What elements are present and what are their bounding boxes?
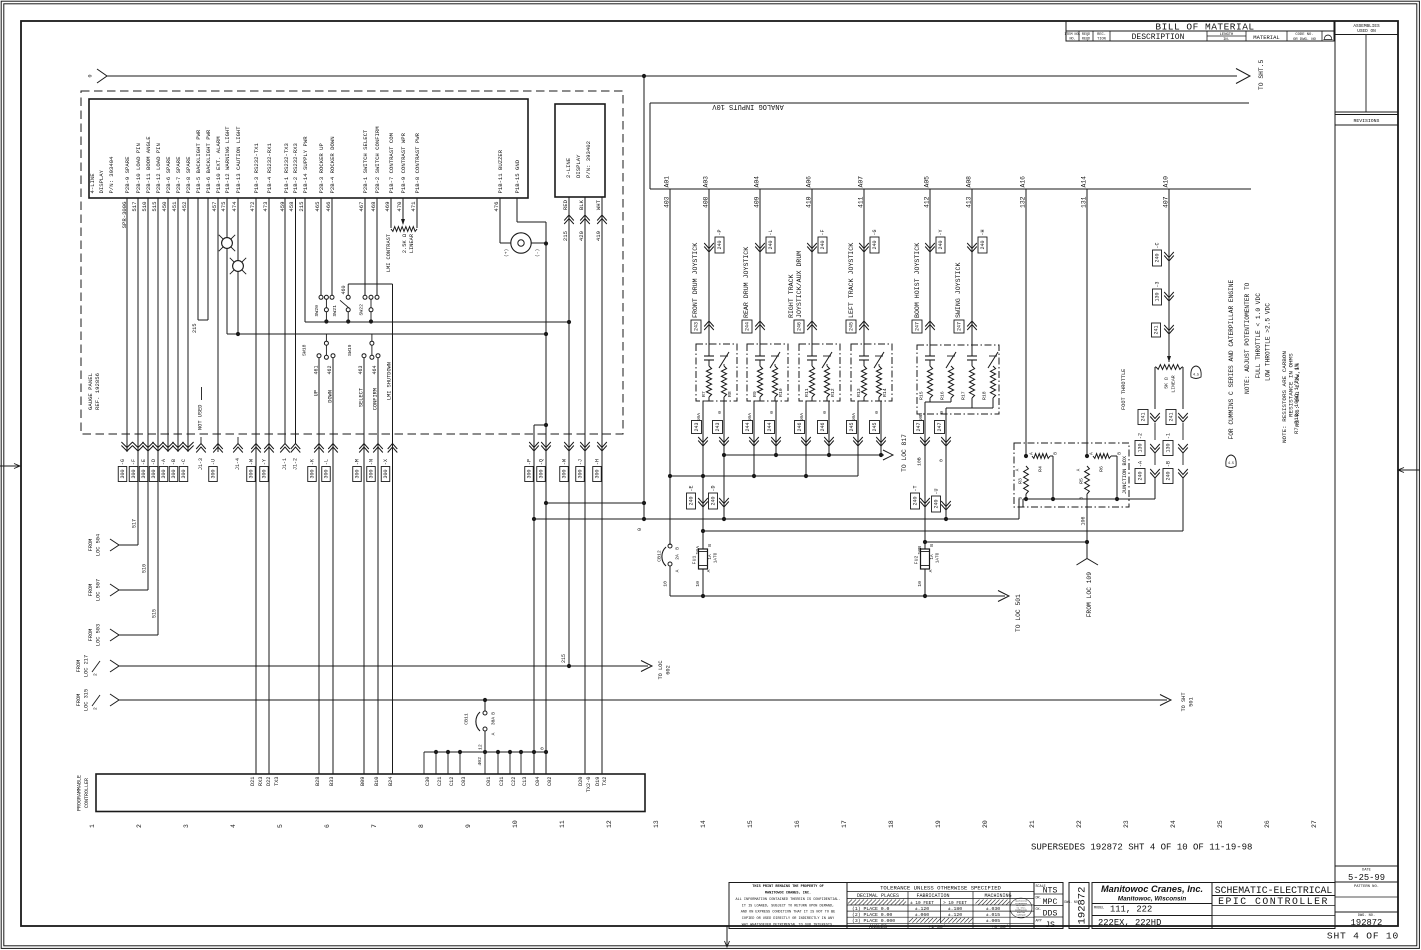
svg-text:300: 300 bbox=[151, 469, 157, 478]
svg-text:-G: -G bbox=[872, 229, 878, 235]
svg-text:+0°30': +0°30' bbox=[991, 924, 1008, 930]
svg-text:10A: 10A bbox=[695, 546, 701, 555]
svg-text:0: 0 bbox=[822, 411, 828, 414]
svg-text:SELECT: SELECT bbox=[358, 388, 364, 407]
svg-text:244: 244 bbox=[767, 422, 773, 431]
svg-text:BOOM HOIST JOYSTICK: BOOM HOIST JOYSTICK bbox=[914, 243, 921, 318]
svg-text:244: 244 bbox=[745, 422, 751, 431]
svg-text:THIS PRINT REMAINS THE PROPERT: THIS PRINT REMAINS THE PROPERTY OF bbox=[752, 885, 823, 889]
svg-text:J1-4: J1-4 bbox=[235, 458, 241, 470]
svg-text:D21: D21 bbox=[250, 777, 256, 787]
svg-text:240: 240 bbox=[1166, 471, 1172, 480]
svg-text:LOC 504: LOC 504 bbox=[95, 534, 101, 556]
svg-text:240: 240 bbox=[913, 496, 919, 505]
svg-text:476: 476 bbox=[493, 202, 500, 212]
svg-text:DOWN: DOWN bbox=[327, 390, 333, 403]
svg-text:240: 240 bbox=[689, 496, 695, 505]
svg-text:A03: A03 bbox=[703, 176, 710, 188]
svg-text:SWING JOYSTICK: SWING JOYSTICK bbox=[955, 263, 962, 318]
svg-text:-F: -F bbox=[820, 229, 826, 235]
svg-text:USED ON: USED ON bbox=[1357, 29, 1376, 34]
svg-text:18: 18 bbox=[888, 820, 895, 828]
svg-text:475: 475 bbox=[220, 202, 227, 212]
svg-text:300: 300 bbox=[211, 469, 217, 478]
svg-text:247: 247 bbox=[957, 322, 963, 331]
svg-text:C13: C13 bbox=[522, 777, 528, 787]
svg-text:R13: R13 bbox=[856, 388, 862, 397]
svg-text:P2B-3 ROCKER UP: P2B-3 ROCKER UP bbox=[318, 143, 325, 194]
svg-text:FROM: FROM bbox=[76, 694, 82, 707]
svg-text:P2B-12 LOAD PIN: P2B-12 LOAD PIN bbox=[155, 143, 162, 193]
svg-text:13: 13 bbox=[653, 820, 660, 828]
svg-text:-Q: -Q bbox=[539, 459, 545, 465]
svg-text:LINEAR: LINEAR bbox=[1171, 375, 1177, 392]
svg-text:CB12: CB12 bbox=[657, 550, 663, 562]
svg-text:300: 300 bbox=[161, 469, 167, 478]
svg-text:A08: A08 bbox=[966, 176, 973, 188]
svg-text:300: 300 bbox=[355, 469, 361, 478]
svg-text:0: 0 bbox=[939, 459, 945, 462]
svg-text:PATTERN NO.: PATTERN NO. bbox=[1354, 885, 1379, 889]
svg-text:A: A bbox=[675, 569, 681, 572]
svg-text:A: A bbox=[706, 569, 712, 572]
svg-text:466: 466 bbox=[325, 202, 332, 212]
svg-text:245: 245 bbox=[849, 422, 855, 431]
svg-text:23: 23 bbox=[1123, 820, 1130, 828]
svg-text:-A: -A bbox=[161, 459, 167, 465]
svg-text:P1B-14 SUPPLY PWR: P1B-14 SUPPLY PWR bbox=[302, 136, 309, 194]
svg-text:LENGTH: LENGTH bbox=[1220, 33, 1234, 37]
svg-text:-F: -F bbox=[131, 459, 137, 465]
svg-text:FROM: FROM bbox=[88, 539, 94, 552]
svg-text:130: 130 bbox=[1166, 443, 1172, 452]
svg-text:R15: R15 bbox=[919, 391, 925, 400]
svg-text:P1B-9 CONTRAST WPR: P1B-9 CONTRAST WPR bbox=[400, 132, 407, 193]
svg-text:B28: B28 bbox=[315, 777, 321, 787]
svg-text:420: 420 bbox=[578, 230, 585, 241]
svg-text:463: 463 bbox=[358, 366, 364, 375]
svg-text:C22: C22 bbox=[511, 777, 517, 787]
svg-text:REC-: REC- bbox=[1097, 33, 1106, 37]
svg-text:C04: C04 bbox=[535, 777, 541, 787]
svg-text:B10: B10 bbox=[374, 777, 380, 787]
svg-text:P2B-2 SWITCH CONFIRM: P2B-2 SWITCH CONFIRM bbox=[374, 126, 381, 193]
svg-text:26: 26 bbox=[1264, 820, 1271, 828]
svg-text:-X: -X bbox=[383, 459, 389, 465]
svg-text:TO LOC 817: TO LOC 817 bbox=[901, 434, 908, 472]
svg-text:A10: A10 bbox=[1163, 176, 1170, 188]
svg-text:P1B-11 BUZZER: P1B-11 BUZZER bbox=[497, 149, 504, 193]
svg-text:IN.: IN. bbox=[1223, 38, 1230, 42]
svg-text:0: 0 bbox=[540, 747, 546, 750]
svg-text:BILL OF MATERIAL: BILL OF MATERIAL bbox=[1155, 22, 1254, 33]
svg-text:467: 467 bbox=[358, 202, 365, 212]
svg-text:-M: -M bbox=[355, 459, 361, 465]
svg-text:464: 464 bbox=[372, 366, 378, 375]
svg-text:P1B-3 RS232-TX1: P1B-3 RS232-TX1 bbox=[253, 143, 260, 194]
svg-text:10: 10 bbox=[695, 581, 701, 587]
svg-text:300: 300 bbox=[562, 469, 568, 478]
svg-text:240: 240 bbox=[1138, 471, 1144, 480]
svg-text:R18: R18 bbox=[982, 391, 988, 400]
svg-text:A16: A16 bbox=[1020, 176, 1027, 188]
svg-text:DESCRIPTION: DESCRIPTION bbox=[1132, 33, 1185, 42]
svg-text:LINEAR: LINEAR bbox=[409, 233, 415, 253]
svg-text:RED: RED bbox=[562, 199, 569, 210]
svg-text:4.5: 4.5 bbox=[1193, 374, 1199, 378]
svg-text:TO LOC 501: TO LOC 501 bbox=[1015, 594, 1022, 632]
svg-text:472: 472 bbox=[249, 202, 256, 212]
svg-text:OR DWG. NO: OR DWG. NO bbox=[1293, 38, 1317, 42]
svg-text:SW18: SW18 bbox=[302, 344, 308, 356]
svg-text:241: 241 bbox=[1141, 412, 1147, 421]
svg-text:JOYSTICK/AUX DRUM: JOYSTICK/AUX DRUM bbox=[796, 251, 803, 318]
svg-text:471: 471 bbox=[410, 201, 417, 212]
svg-text:R7: R7 bbox=[701, 391, 707, 397]
svg-text:10B: 10B bbox=[917, 546, 923, 555]
svg-text:243: 243 bbox=[694, 322, 700, 331]
svg-text:20: 20 bbox=[982, 820, 989, 828]
svg-text:SCHEMATIC-ELECTRICAL: SCHEMATIC-ELECTRICAL bbox=[1215, 885, 1333, 896]
svg-text:P2B-10 LOAD PIN: P2B-10 LOAD PIN bbox=[135, 143, 142, 193]
svg-text:300: 300 bbox=[120, 469, 126, 478]
svg-text:17: 17 bbox=[841, 820, 848, 828]
svg-text:246: 246 bbox=[797, 422, 803, 431]
svg-text:0: 0 bbox=[637, 528, 643, 531]
svg-text:ANGLES: ANGLES bbox=[869, 924, 887, 930]
svg-text:12: 12 bbox=[478, 744, 484, 750]
svg-text:-E: -E bbox=[141, 459, 147, 465]
svg-text:FOOT THROTTLE: FOOT THROTTLE bbox=[1121, 369, 1127, 410]
svg-text:FULL THROTTLE < 1.0 VDC: FULL THROTTLE < 1.0 VDC bbox=[1255, 293, 1262, 379]
svg-text:SW22: SW22 bbox=[359, 304, 365, 316]
svg-text:1: 1 bbox=[89, 824, 96, 828]
svg-text:7: 7 bbox=[371, 824, 378, 828]
svg-text:-Y: -Y bbox=[262, 459, 268, 465]
svg-text:SHT 4 OF 10: SHT 4 OF 10 bbox=[1327, 931, 1399, 942]
svg-text:1ATO: 1ATO bbox=[713, 552, 718, 563]
svg-text:REVISIONS: REVISIONS bbox=[1354, 118, 1380, 124]
svg-text:240: 240 bbox=[820, 240, 826, 249]
svg-text:-K: -K bbox=[310, 459, 316, 465]
svg-text:SUPERSEDES 192872 SHT 4 OF 10: SUPERSEDES 192872 SHT 4 OF 10 OF 11-19-9… bbox=[1031, 843, 1252, 853]
svg-text:-U: -U bbox=[934, 488, 940, 494]
svg-text:FROM: FROM bbox=[88, 629, 94, 642]
svg-text:J1-2: J1-2 bbox=[293, 458, 299, 470]
svg-text:510: 510 bbox=[141, 201, 148, 212]
svg-text:D20: D20 bbox=[578, 777, 584, 787]
svg-text:A05: A05 bbox=[924, 176, 931, 188]
svg-text:ALL INFORMATION CONTAINED THER: ALL INFORMATION CONTAINED THEREIN IS CON… bbox=[735, 898, 840, 902]
svg-text:1A: 1A bbox=[708, 554, 713, 560]
svg-text:300: 300 bbox=[369, 469, 375, 478]
svg-text:192872: 192872 bbox=[1077, 887, 1089, 925]
svg-text:517: 517 bbox=[132, 519, 138, 528]
svg-text:240: 240 bbox=[768, 240, 774, 249]
svg-text:2.5K Ω: 2.5K Ω bbox=[402, 233, 408, 253]
svg-text:5K Ω: 5K Ω bbox=[1164, 377, 1170, 389]
svg-text:300: 300 bbox=[262, 469, 268, 478]
svg-text:-Y: -Y bbox=[938, 229, 944, 235]
svg-text:P/N: 393402: P/N: 393402 bbox=[585, 141, 592, 178]
svg-text:TOLERANCE UNLESS OTHERWISE SPE: TOLERANCE UNLESS OTHERWISE SPECIFIED bbox=[880, 884, 1001, 891]
svg-text:602: 602 bbox=[665, 665, 671, 675]
svg-text:247: 247 bbox=[937, 422, 943, 431]
svg-text:6: 6 bbox=[324, 824, 331, 828]
svg-text:CODE NO.: CODE NO. bbox=[1295, 33, 1313, 37]
svg-text:241: 241 bbox=[1169, 412, 1175, 421]
svg-text:462: 462 bbox=[327, 366, 333, 375]
svg-text:R17: R17 bbox=[961, 391, 967, 400]
svg-text:B33: B33 bbox=[329, 777, 335, 787]
svg-text:10B: 10B bbox=[917, 457, 923, 466]
svg-text:P2B-9 SPARE: P2B-9 SPARE bbox=[124, 156, 131, 194]
svg-text:25: 25 bbox=[1217, 820, 1224, 828]
svg-text:DISPLAY: DISPLAY bbox=[575, 154, 582, 178]
svg-text:515: 515 bbox=[152, 609, 158, 618]
svg-text:A07: A07 bbox=[858, 176, 865, 188]
svg-text:P2B-11 BOOM ANGLE: P2B-11 BOOM ANGLE bbox=[145, 136, 152, 194]
svg-text:247: 247 bbox=[915, 322, 921, 331]
svg-text:RIGHT TRACK: RIGHT TRACK bbox=[788, 274, 795, 318]
svg-text:IT IS LOANED, SUBJECT TO RETUR: IT IS LOANED, SUBJECT TO RETURN UPON DEM… bbox=[742, 904, 834, 908]
svg-text:501: 501 bbox=[1188, 697, 1194, 707]
svg-text:0: 0 bbox=[88, 74, 94, 77]
svg-text:BLK: BLK bbox=[578, 199, 585, 210]
svg-text:-W: -W bbox=[249, 459, 255, 465]
svg-text:A14: A14 bbox=[1081, 176, 1088, 188]
svg-text:P1B-10 EXT. ALARM: P1B-10 EXT. ALARM bbox=[215, 136, 222, 193]
svg-text:COPIED OR USED DIRECTLY OR IND: COPIED OR USED DIRECTLY OR INDIRECTLY IN… bbox=[742, 917, 835, 921]
svg-text:10: 10 bbox=[663, 581, 669, 587]
svg-text:A: A bbox=[1029, 452, 1035, 455]
svg-text:LMI CONTRAST: LMI CONTRAST bbox=[386, 234, 392, 272]
svg-text:P2B-7 SPARE: P2B-7 SPARE bbox=[175, 156, 182, 194]
svg-text:-C: -C bbox=[1155, 242, 1161, 248]
svg-text:300: 300 bbox=[171, 469, 177, 478]
svg-text:4.5: 4.5 bbox=[1228, 462, 1234, 466]
svg-text:300: 300 bbox=[527, 469, 533, 478]
svg-text:TO LOC: TO LOC bbox=[658, 660, 664, 679]
svg-text:CK.: CK. bbox=[1036, 908, 1042, 912]
svg-text:PROGRAMMABLE: PROGRAMMABLE bbox=[77, 775, 83, 811]
svg-text:REQD: REQD bbox=[1082, 37, 1090, 41]
svg-text:MATERIAL: MATERIAL bbox=[1253, 34, 1279, 41]
svg-text:300: 300 bbox=[539, 469, 545, 478]
svg-text:452: 452 bbox=[181, 202, 188, 212]
svg-text:458: 458 bbox=[288, 202, 295, 212]
svg-text:NOTE: ADJUST POTENTIOMENTER TO: NOTE: ADJUST POTENTIOMENTER TO bbox=[1244, 282, 1251, 394]
svg-text:C31: C31 bbox=[499, 777, 505, 787]
svg-text:-L: -L bbox=[324, 459, 330, 465]
svg-text:-D: -D bbox=[151, 459, 157, 465]
svg-text:457: 457 bbox=[211, 202, 218, 212]
svg-text:300: 300 bbox=[595, 469, 601, 478]
svg-text:D22: D22 bbox=[266, 777, 272, 787]
svg-text:106: 106 bbox=[1081, 516, 1087, 525]
svg-text:300: 300 bbox=[181, 469, 187, 478]
svg-text:-N: -N bbox=[369, 459, 375, 465]
svg-text:5-25-99: 5-25-99 bbox=[1348, 873, 1385, 883]
svg-text:15: 15 bbox=[747, 820, 754, 828]
svg-text:240: 240 bbox=[980, 240, 986, 249]
svg-text:4-LINE: 4-LINE bbox=[89, 173, 96, 194]
svg-text:A: A bbox=[928, 569, 934, 572]
svg-text:TX3: TX3 bbox=[274, 777, 280, 787]
svg-text:ANALOG INPUTS 10V: ANALOG INPUTS 10V bbox=[712, 102, 784, 110]
svg-text:R10: R10 bbox=[778, 388, 784, 397]
svg-text:+1°30': +1°30' bbox=[928, 924, 945, 930]
svg-text:8: 8 bbox=[418, 824, 425, 828]
svg-text:C03: C03 bbox=[461, 777, 467, 787]
svg-text:B: B bbox=[491, 712, 497, 715]
svg-text:11: 11 bbox=[559, 820, 566, 828]
svg-text:JS: JS bbox=[1045, 921, 1055, 930]
svg-text:1ATO: 1ATO bbox=[935, 552, 940, 563]
svg-text:300: 300 bbox=[578, 469, 584, 478]
svg-text:MODEL: MODEL bbox=[1094, 907, 1104, 911]
svg-text:468: 468 bbox=[370, 202, 377, 212]
svg-text:C01: C01 bbox=[486, 777, 492, 787]
svg-text:CONTROLLER: CONTROLLER bbox=[84, 778, 90, 808]
svg-text:-H: -H bbox=[980, 229, 986, 235]
svg-text:460: 460 bbox=[341, 286, 347, 295]
svg-text:TO SHT: TO SHT bbox=[1181, 692, 1187, 711]
svg-text:-T: -T bbox=[913, 485, 919, 491]
svg-text:LMI SHUTDOWN: LMI SHUTDOWN bbox=[386, 362, 392, 400]
svg-text:DISPLAY: DISPLAY bbox=[98, 169, 105, 193]
svg-text:465: 465 bbox=[314, 202, 321, 212]
svg-text:C30: C30 bbox=[425, 777, 431, 787]
svg-text:(-): (-) bbox=[535, 249, 541, 257]
svg-text:0: 0 bbox=[769, 411, 775, 414]
svg-text:-2: -2 bbox=[1138, 433, 1144, 439]
svg-text:243: 243 bbox=[694, 422, 700, 431]
svg-text:GAUGE PANEL: GAUGE PANEL bbox=[87, 373, 94, 410]
svg-text:21: 21 bbox=[1029, 820, 1036, 828]
svg-text:27: 27 bbox=[1311, 820, 1318, 828]
svg-text:1A: 1A bbox=[930, 554, 935, 560]
svg-text:16: 16 bbox=[794, 820, 801, 828]
svg-text:R7-R18: 100Ω 1/2W, 1%: R7-R18: 100Ω 1/2W, 1% bbox=[1293, 363, 1300, 434]
svg-text:TX2: TX2 bbox=[602, 777, 608, 787]
svg-text:300: 300 bbox=[249, 469, 255, 478]
svg-text:LOC 507: LOC 507 bbox=[95, 579, 101, 601]
svg-text:300: 300 bbox=[324, 469, 330, 478]
svg-text:FRONT DRUM JOYSTICK: FRONT DRUM JOYSTICK bbox=[692, 243, 699, 318]
svg-text:0: 0 bbox=[939, 411, 945, 414]
svg-text:451: 451 bbox=[171, 201, 178, 212]
svg-text:FOR CUMMINS C SERIES AND CATER: FOR CUMMINS C SERIES AND CATERPILLAR ENG… bbox=[1228, 280, 1235, 440]
svg-text:10: 10 bbox=[512, 820, 519, 828]
svg-text:-W: -W bbox=[562, 459, 568, 465]
svg-text:P1B-8 CONTRAST PWR: P1B-8 CONTRAST PWR bbox=[414, 132, 421, 193]
svg-text:FU2: FU2 bbox=[914, 556, 920, 565]
svg-text:FROM: FROM bbox=[76, 660, 82, 673]
svg-text:JUNCTION BOX: JUNCTION BOX bbox=[1122, 455, 1128, 494]
svg-text:FU1: FU1 bbox=[692, 556, 698, 565]
svg-text:9: 9 bbox=[465, 824, 472, 828]
svg-text:14: 14 bbox=[700, 820, 707, 828]
svg-text:MANITOWOC CRANES, INC.: MANITOWOC CRANES, INC. bbox=[765, 892, 811, 896]
svg-text:474: 474 bbox=[231, 201, 238, 212]
svg-text:19: 19 bbox=[935, 820, 942, 828]
svg-text:REF. 192856: REF. 192856 bbox=[94, 373, 101, 410]
svg-text:B24: B24 bbox=[388, 777, 394, 787]
svg-text:P/N: 393404: P/N: 393404 bbox=[108, 156, 115, 194]
svg-text:C21: C21 bbox=[437, 777, 443, 787]
svg-text:2-LINE: 2-LINE bbox=[565, 157, 572, 178]
svg-text:J1-1: J1-1 bbox=[282, 458, 288, 470]
svg-text:A: A bbox=[1089, 452, 1095, 455]
svg-text:-H: -H bbox=[595, 459, 601, 465]
svg-text:NO.: NO. bbox=[1069, 37, 1075, 41]
svg-text:CB11: CB11 bbox=[464, 713, 470, 725]
svg-text:241: 241 bbox=[1154, 325, 1160, 334]
svg-text:P2B-4 ROCKER DOWN: P2B-4 ROCKER DOWN bbox=[329, 136, 336, 193]
svg-text:B09: B09 bbox=[360, 777, 366, 787]
svg-text:3: 3 bbox=[183, 824, 190, 828]
svg-text:469: 469 bbox=[384, 202, 391, 212]
svg-text:-G: -G bbox=[120, 459, 126, 465]
svg-text:215: 215 bbox=[562, 231, 569, 241]
svg-text:300: 300 bbox=[383, 469, 389, 478]
svg-text:P1B-7 CONTRAST COM: P1B-7 CONTRAST COM bbox=[388, 133, 395, 193]
svg-text:402: 402 bbox=[477, 757, 483, 766]
svg-text:J1-3: J1-3 bbox=[198, 458, 204, 470]
svg-text:246: 246 bbox=[797, 322, 803, 331]
svg-text:CONFIRM: CONFIRM bbox=[372, 388, 378, 410]
svg-text:-D: -D bbox=[711, 485, 717, 491]
svg-text:B: B bbox=[929, 544, 935, 547]
svg-text:APP: APP bbox=[1036, 920, 1042, 924]
svg-text:244: 244 bbox=[745, 322, 751, 331]
svg-text:-3: -3 bbox=[1155, 281, 1161, 287]
svg-text:300: 300 bbox=[131, 469, 137, 478]
svg-text:0: 0 bbox=[874, 411, 880, 414]
svg-text:222EX, 222HD: 222EX, 222HD bbox=[1098, 918, 1161, 928]
svg-text:130: 130 bbox=[1138, 443, 1144, 452]
svg-text:Manitowoc, Wisconsin: Manitowoc, Wisconsin bbox=[1118, 896, 1187, 903]
svg-text:R3: R3 bbox=[1018, 478, 1024, 484]
svg-text:FROM LOC 109: FROM LOC 109 bbox=[1086, 572, 1093, 618]
svg-text:240: 240 bbox=[872, 240, 878, 249]
svg-text:SW19: SW19 bbox=[347, 344, 353, 356]
svg-text:111, 222: 111, 222 bbox=[1110, 905, 1152, 915]
svg-text:24: 24 bbox=[1170, 820, 1177, 828]
svg-text:240: 240 bbox=[711, 496, 717, 505]
svg-text:-B: -B bbox=[1166, 461, 1172, 467]
svg-text:247: 247 bbox=[916, 422, 922, 431]
svg-text:-U: -U bbox=[211, 459, 217, 465]
svg-text:SW20: SW20 bbox=[314, 305, 320, 317]
svg-text:B: B bbox=[1053, 452, 1059, 455]
svg-text:B: B bbox=[1117, 452, 1123, 455]
svg-text:192872: 192872 bbox=[1351, 918, 1383, 928]
svg-text:-B: -B bbox=[171, 459, 177, 465]
svg-text:-A: -A bbox=[1138, 461, 1144, 467]
svg-text:P1B-4 RS232-RX1: P1B-4 RS232-RX1 bbox=[266, 143, 273, 194]
svg-text:A01: A01 bbox=[664, 176, 671, 188]
svg-text:D19: D19 bbox=[595, 777, 601, 787]
svg-text:-1: -1 bbox=[1166, 433, 1172, 439]
svg-text:-E: -E bbox=[689, 485, 695, 491]
svg-text:-J: -J bbox=[578, 459, 584, 465]
svg-text:130: 130 bbox=[1155, 292, 1161, 301]
svg-text:245: 245 bbox=[849, 322, 855, 331]
svg-text:TO SHT.5: TO SHT.5 bbox=[1258, 60, 1265, 90]
svg-text:470: 470 bbox=[396, 201, 403, 212]
